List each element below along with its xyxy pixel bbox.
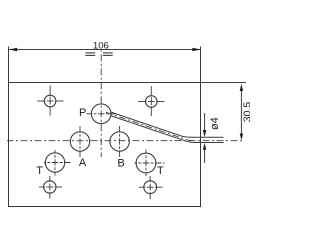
hole small bottom-left [39, 176, 62, 199]
hole T left [44, 150, 71, 176]
extension line right (106 dim) [200, 47, 202, 83]
hole T right [135, 150, 165, 177]
svg-text:30.5: 30.5 [242, 102, 250, 123]
svg-text:T: T [36, 165, 43, 177]
channel centerline (diagonal) [106, 112, 193, 140]
hole A [70, 125, 89, 157]
dimension line 30.5 [240, 84, 243, 141]
svg-text:P: P [79, 107, 86, 119]
channel from P to right edge (drill passage) [111, 112, 224, 142]
hole top-right mount [138, 86, 165, 116]
dimension o4 arrows [203, 113, 206, 163]
hole small bottom-right [139, 176, 163, 199]
extension line top-right (30.5 dim) [201, 82, 247, 84]
symmetry marks = = [85, 53, 112, 56]
hole P [87, 104, 119, 124]
extension line left (106 dim) [8, 47, 10, 83]
vertical centerline [100, 51, 102, 158]
svg-text:106: 106 [93, 41, 109, 52]
svg-text:T: T [157, 165, 164, 177]
svg-text:A: A [79, 157, 87, 169]
svg-text:ø4: ø4 [209, 117, 221, 130]
hole B [110, 125, 129, 157]
horizontal centerline [7, 140, 245, 142]
svg-text:B: B [117, 157, 124, 169]
plate outline [9, 83, 201, 207]
hole top-left mount [37, 85, 63, 115]
dimension line 106 [9, 48, 201, 51]
